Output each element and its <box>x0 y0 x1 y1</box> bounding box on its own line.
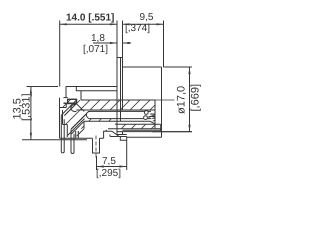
solder pin 2 <box>71 129 74 153</box>
terminal bend 2 outer line <box>71 111 89 129</box>
dim dia17 top arrowhead <box>188 67 190 74</box>
dim 14.0 left arrowhead <box>60 23 67 25</box>
svg-text:14.0 [.551]: 14.0 [.551] <box>66 13 114 24</box>
hatch insulator band A <box>63 100 156 110</box>
terminal bend 1 outer line <box>61 100 76 115</box>
cylinder bottom inner band line <box>123 129 161 131</box>
housing rear wall <box>65 87 67 98</box>
dim 7.5 right arrowhead <box>119 165 126 167</box>
dim 14.0 right extension line (flange left face extended) <box>116 21 118 58</box>
body bottom step <box>104 131 112 138</box>
pin1 slot white area <box>60 125 67 139</box>
locating peg dashed centreline <box>95 136 97 158</box>
body left wall <box>59 98 61 139</box>
dim 7.5 left arrowhead <box>97 165 104 167</box>
front bottom lip line <box>127 136 162 138</box>
dim dia17 bottom extension line <box>152 131 192 133</box>
rear insulator top edge <box>64 97 68 99</box>
svg-text:ø17,0: ø17,0 <box>176 86 188 114</box>
front cylinder face <box>161 67 163 137</box>
svg-text:1,8: 1,8 <box>91 33 105 44</box>
rear insulator bottom edge <box>60 107 67 109</box>
contact loop curve <box>71 104 77 111</box>
rear terminal lip line <box>64 102 77 104</box>
flange foot top <box>117 134 127 136</box>
dim 14.0 right arrowhead <box>110 23 117 25</box>
second contact bend upper <box>71 121 84 134</box>
socket mouth lower wedge <box>152 120 155 122</box>
insulator top line <box>81 99 155 101</box>
dim dia17 bottom arrowhead <box>188 125 190 132</box>
contact socket capsule <box>86 111 151 118</box>
terminal bend 2 inner line <box>68 119 85 136</box>
dim 9.5 dimension line <box>123 23 164 25</box>
second contact bend lower <box>77 129 84 136</box>
front bottom corner inner vline <box>160 124 162 131</box>
flange foot nub <box>120 137 126 141</box>
svg-text:[,669]: [,669] <box>190 84 202 112</box>
dim 1.8 right leader and arrowhead <box>123 42 131 44</box>
second contact bar white <box>84 121 117 129</box>
insulator band A bottom line <box>76 109 155 111</box>
lower line y128.8 <box>108 128 161 130</box>
terminal bend 2 white channel <box>71 111 89 139</box>
socket mouth upper chamfer <box>149 115 155 118</box>
dim 7.5 dimension line <box>97 166 127 168</box>
svg-text:[,374]: [,374] <box>125 23 150 34</box>
housing inner rear step <box>80 91 82 100</box>
body bottom edge right of peg <box>100 137 104 139</box>
svg-text:7,5: 7,5 <box>102 156 116 167</box>
dim 13.5 top arrowhead <box>30 87 32 94</box>
contact socket inner circle 2 <box>144 116 148 120</box>
dim 9.5 right arrowhead <box>156 23 163 25</box>
svg-text:[,071]: [,071] <box>83 44 108 55</box>
dim dia17 dimension line <box>189 67 191 132</box>
lower line y124.3 <box>115 123 161 125</box>
solder pin 1 <box>61 115 64 153</box>
insulator step left of pin1 <box>63 110 68 137</box>
svg-text:[,531]: [,531] <box>21 93 33 121</box>
svg-text:9,5: 9,5 <box>140 12 154 23</box>
dim 7.5 right extension line <box>126 137 128 171</box>
socket mouth upper wedge <box>151 117 156 119</box>
socket mouth short line <box>150 113 155 115</box>
hatch insulator left block <box>63 110 89 119</box>
dim 9.5 left arrowhead <box>123 23 130 25</box>
flange foot bottom <box>110 135 127 137</box>
holder rib lines <box>76 131 79 138</box>
dim 13.5 bottom arrowhead <box>30 133 32 140</box>
housing top inner contour <box>76 87 117 91</box>
dim 9.5 left extension line (flange right face extended) <box>122 21 124 58</box>
terminal bend 1 inner line <box>64 103 76 115</box>
front cylinder top edge <box>123 66 162 68</box>
dim 13.5 dimension line <box>30 87 32 140</box>
dim 1.8 left leader and arrowhead <box>93 42 117 44</box>
centre axis extension <box>155 99 175 101</box>
step detail diagonal <box>112 131 119 136</box>
contact socket inner circle <box>144 111 148 115</box>
socket cavity front wall <box>154 100 156 129</box>
housing top outer edge <box>66 86 117 88</box>
cylinder bottom edge and extension <box>117 131 192 133</box>
dim 13.5 top extension line <box>27 86 59 88</box>
dim 14.0 left extension line <box>59 21 61 87</box>
flange plate inner line <box>120 58 122 122</box>
second contact bar left end <box>83 121 85 129</box>
terminal to socket link diagonal <box>77 104 85 112</box>
locating peg outline <box>93 138 100 153</box>
dim 13.5 bottom extension line (pcb seating plane) <box>22 139 87 141</box>
body bottom edge left of peg <box>60 137 93 139</box>
step detail wedge <box>105 130 108 132</box>
dim 7.5 left extension line (peg centre) <box>96 156 98 170</box>
flange plate left face <box>116 58 118 135</box>
line under capsule <box>84 121 155 124</box>
svg-text:[,295]: [,295] <box>96 168 121 179</box>
rear terminal crimp block <box>68 99 77 103</box>
dim 9.5 right extension line (front face extended) <box>163 21 165 68</box>
hatch insulator band B left <box>63 119 118 129</box>
flange top edge <box>117 57 123 59</box>
hatch lower strip right <box>118 124 158 129</box>
dim 14.0 dimension line <box>60 23 117 25</box>
rear terminal lower edge <box>65 103 67 107</box>
socket mouth short line 2 <box>149 116 156 118</box>
dim dia17 top extension line <box>164 66 193 68</box>
flange plate right face <box>122 58 124 135</box>
terminal bend 1 white channel <box>61 100 76 127</box>
